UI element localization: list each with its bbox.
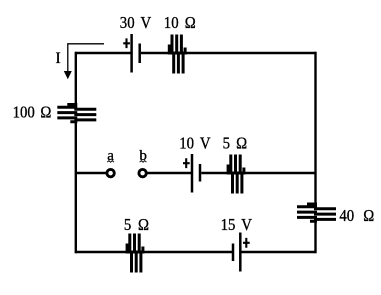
svg-text:10 Ω: 10 Ω [164, 14, 196, 32]
battery 10 V plus terminal plate [191, 154, 194, 193]
wire middle branch between battery and resistor [201, 172, 229, 174]
resistor 100 ohm [57, 105, 96, 122]
battery 30 V plus terminal plate [130, 34, 133, 73]
svg-text:5 Ω: 5 Ω [223, 135, 248, 153]
wire top-right segment [186, 52, 316, 54]
svg-text:15 V: 15 V [221, 216, 253, 234]
battery 15 V plus sign [243, 238, 250, 248]
node b terminal circle [139, 169, 146, 176]
battery 10 V minus terminal plate [199, 164, 202, 182]
battery 15 V plus terminal plate [239, 233, 242, 272]
wire right lower segment [314, 221, 316, 253]
current arrow I [68, 44, 104, 72]
battery 15 V minus terminal plate [232, 244, 235, 262]
node a terminal circle [107, 169, 114, 176]
svg-text:40 Ω: 40 Ω [339, 207, 374, 225]
battery 30 V plus sign [123, 38, 130, 48]
battery 10 V plus sign [183, 158, 190, 168]
wire bottom middle segment [144, 251, 232, 253]
wire middle branch between b and battery [147, 172, 191, 174]
wire bottom-left segment [75, 251, 127, 253]
svg-text:5 Ω: 5 Ω [124, 216, 149, 234]
squiggle under a [107, 161, 114, 163]
resistor 40 ohm [297, 204, 336, 221]
wire right upper segment [314, 52, 316, 204]
squiggle under b [140, 161, 147, 163]
resistor 5 ohm middle [228, 155, 244, 194]
battery 30 V minus terminal plate [138, 44, 141, 64]
svg-text:30 V: 30 V [120, 14, 152, 32]
wire left upper segment [75, 52, 77, 104]
wire top between battery and resistor [141, 52, 169, 54]
svg-text:I: I [56, 50, 61, 67]
svg-text:10 V: 10 V [179, 135, 211, 153]
svg-text:100 Ω: 100 Ω [13, 103, 52, 121]
wire left lower segment [75, 121, 77, 253]
wire middle branch right [245, 172, 316, 174]
resistor 10 ohm [169, 35, 185, 74]
wire top-left segment [75, 52, 131, 54]
wire bottom-right segment [242, 251, 317, 253]
wire middle branch left [76, 172, 106, 174]
resistor 5 ohm bottom [127, 234, 143, 273]
